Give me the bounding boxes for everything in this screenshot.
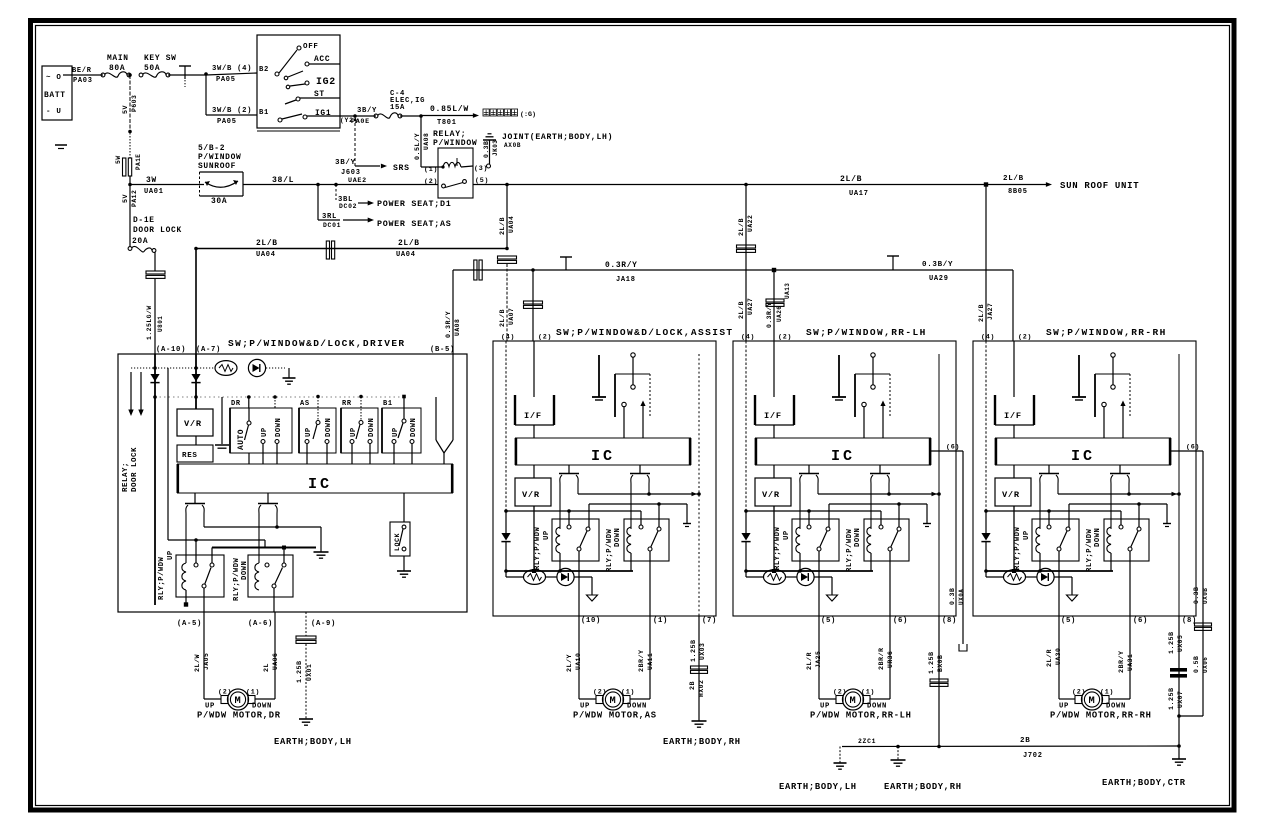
node: junction feeding B1 <box>204 72 208 76</box>
interface I/F box SW;P/WINDOW,RR-RH <box>995 395 1034 438</box>
ground mid SW;P/WINDOW,RR-RH <box>1072 355 1086 400</box>
svg-text:(2): (2) <box>833 689 847 697</box>
svg-text:1.25LG/W: 1.25LG/W <box>146 305 153 340</box>
wire emitters to ground driver <box>204 525 329 558</box>
transistor Q1 SW;P/WINDOW&D/LOCK,ASSIST <box>559 465 579 529</box>
svg-text:0.3R/Y: 0.3R/Y <box>605 261 638 270</box>
svg-text:JA05: JA05 <box>203 653 210 670</box>
wire relay feed y163 SW;P/WINDOW,RR-RH <box>1069 502 1171 527</box>
svg-text:J603: J603 <box>341 169 361 177</box>
svg-text:0.85L/W: 0.85L/W <box>430 105 469 114</box>
svg-text:(1): (1) <box>424 166 438 174</box>
svg-text:RLY;P/WDW: RLY;P/WDW <box>534 526 542 570</box>
svg-text:B2: B2 <box>259 66 269 74</box>
wire 2L/B UA04 horizontal <box>196 239 507 259</box>
switch unit SW;P/WINDOW&D/LOCK,DRIVER box <box>118 354 467 612</box>
relay RLY;P/WDW DOWN SW;P/WINDOW,RR-RH <box>1086 519 1149 616</box>
label SW;P/WINDOW&D/LOCK,ASSIST title <box>501 327 734 342</box>
ground small on 2B bus <box>834 747 847 770</box>
ground mid SW;P/WINDOW&D/LOCK,ASSIST <box>592 355 606 400</box>
svg-text:KEY SW: KEY SW <box>144 54 177 63</box>
svg-text:UA26: UA26 <box>776 306 783 322</box>
svg-text:RLY;P/WDW: RLY;P/WDW <box>846 528 854 572</box>
svg-text:(2): (2) <box>1072 689 1086 697</box>
wire assist (7) earth chain 1.25B UX03 <box>689 616 708 721</box>
ignition terminal B1 and arm to IG1 <box>259 109 331 122</box>
svg-text:UA07: UA07 <box>508 308 515 325</box>
wire 0.3B JK03 to joint earth <box>483 140 499 164</box>
wire from rail down left inner <box>167 368 169 540</box>
relay RLY;P/WDW UP driver <box>158 550 224 612</box>
svg-text:5W: 5W <box>115 155 122 164</box>
svg-text:MAIN: MAIN <box>107 54 129 63</box>
svg-text:UA30: UA30 <box>1055 648 1062 665</box>
svg-text:RLY;P/WDW: RLY;P/WDW <box>606 528 614 572</box>
fuse D-1E 20A <box>128 247 132 251</box>
svg-text:(1): (1) <box>1100 689 1114 697</box>
svg-text:UA04: UA04 <box>256 251 276 259</box>
wire supply 1 into driver box (1.25LG/W) <box>154 354 156 605</box>
svg-text:UP: UP <box>167 550 175 560</box>
svg-text:2L/B: 2L/B <box>499 309 507 327</box>
relay RLY;P/WDW UP SW;P/WINDOW,RR-LH <box>774 519 839 616</box>
svg-text:UX03: UX03 <box>699 643 706 660</box>
svg-text:0.3R/Y: 0.3R/Y <box>445 311 453 338</box>
svg-text:EARTH;BODY,LH: EARTH;BODY,LH <box>779 782 857 792</box>
wire driver (A-5) to motor 2L/W JA05 <box>194 612 221 699</box>
svg-text:3B/Y: 3B/Y <box>357 107 377 115</box>
svg-text:DOWN: DOWN <box>325 418 333 437</box>
svg-text:UA08: UA08 <box>454 319 461 336</box>
svg-text:(5): (5) <box>1061 617 1076 625</box>
wire 0.3R/Y drop into driver box <box>445 270 461 354</box>
wire RR-LH (5) to motor <box>806 616 836 699</box>
svg-text:SUNROOF: SUNROOF <box>198 162 236 171</box>
wire internal right vertical SW;P/WINDOW,RR-RH <box>1178 354 1180 616</box>
wire RR-LH (6) to motor <box>870 616 894 699</box>
ground lamp SW;P/WINDOW&D/LOCK,ASSIST <box>587 595 598 601</box>
svg-text:UA29: UA29 <box>929 275 949 283</box>
svg-text:JOINT(EARTH;BODY,LH): JOINT(EARTH;BODY,LH) <box>502 133 613 142</box>
svg-text:J702: J702 <box>1023 752 1043 760</box>
label RELAY;DOOR LOCK (rotated) <box>122 447 139 492</box>
wire RR-LH (8) earth chain 1.25B <box>928 616 948 747</box>
svg-text:(A-7): (A-7) <box>196 346 221 354</box>
svg-text:(4): (4) <box>741 334 755 342</box>
svg-text:UP: UP <box>783 530 791 540</box>
wire emitter line SW;P/WINDOW,RR-RH <box>1058 492 1181 496</box>
transistor Q2 SW;P/WINDOW,RR-LH <box>870 465 890 529</box>
label 2L/B UA17 on bus <box>840 175 869 198</box>
wire relay feed y163 SW;P/WINDOW&D/LOCK,ASSIST <box>589 502 691 527</box>
ground in driver box top <box>283 368 296 384</box>
svg-text:RR: RR <box>342 400 352 408</box>
wire bus bottom SW;P/WINDOW&D/LOCK,ASSIST <box>504 569 633 573</box>
wire 2L/B JA27 RR-RH feed <box>978 185 994 342</box>
diode on supply SW;P/WINDOW,RR-RH <box>981 511 990 571</box>
svg-text:PA05: PA05 <box>216 76 236 84</box>
svg-text:JK03: JK03 <box>492 140 499 156</box>
wire relay feed y170 SW;P/WINDOW,RR-RH <box>984 509 1121 525</box>
svg-text:P/WINDOW: P/WINDOW <box>433 139 477 148</box>
svg-text:P/WDW MOTOR,AS: P/WDW MOTOR,AS <box>573 711 657 721</box>
svg-text:I/F: I/F <box>524 411 542 421</box>
svg-text:50A: 50A <box>144 64 160 73</box>
fuse KEY SW 50A <box>139 54 177 77</box>
wire BE/R PA03 battery to MAIN fuse <box>63 67 103 85</box>
wire 1.25LG/W U801 into driver box <box>146 252 165 354</box>
ignition contact ST <box>285 90 340 104</box>
fuse MAIN 80A <box>101 54 131 77</box>
svg-text:UA11: UA11 <box>647 653 654 670</box>
label 2L/B UA27 RR-LH feed lower <box>738 298 754 319</box>
svg-text:SW;P/WINDOW&D/LOCK,DRIVER: SW;P/WINDOW&D/LOCK,DRIVER <box>228 338 406 349</box>
svg-text:DOWN: DOWN <box>1106 703 1126 711</box>
svg-text:(A-5): (A-5) <box>177 620 202 628</box>
svg-text:UA22: UA22 <box>747 215 754 232</box>
wire 0.85L/W T801 with arrow to fuel unit (jp) <box>421 105 479 127</box>
motor P/WDW MOTOR,DR <box>205 689 272 711</box>
svg-text:RLY;P/WDW: RLY;P/WDW <box>1086 528 1094 572</box>
relay RLY;P/WDW UP SW;P/WINDOW&D/LOCK,ASSIST <box>534 519 599 616</box>
node: rail dots y=397 <box>153 395 404 399</box>
svg-text:(A-6): (A-6) <box>248 620 273 628</box>
connector tick on 3W/B wire <box>179 66 191 87</box>
svg-text:SW;P/WINDOW,RR-RH: SW;P/WINDOW,RR-RH <box>1046 327 1167 338</box>
svg-text:(1): (1) <box>653 617 668 625</box>
switch cluster SW;P/WINDOW&D/LOCK,ASSIST <box>615 353 650 438</box>
lamp L1 in driver box <box>215 361 237 376</box>
svg-text:RELAY;: RELAY; <box>433 130 466 139</box>
svg-text:2L/B: 2L/B <box>499 217 507 235</box>
svg-text:RLY;P/WDW: RLY;P/WDW <box>1014 526 1022 570</box>
IC box SW;P/WINDOW,RR-RH <box>995 438 1171 465</box>
regulator V/R box SW;P/WINDOW&D/LOCK,ASSIST <box>515 465 551 571</box>
svg-text:RLY;P/WDW: RLY;P/WDW <box>158 556 166 600</box>
label SW;P/WINDOW,RR-LH title <box>741 327 927 342</box>
dotted rail across driver box top <box>131 366 285 370</box>
svg-text:3W: 3W <box>146 176 157 185</box>
fuse box 5/B-2 P/WINDOW SUNROOF 30A <box>198 144 243 206</box>
ignition terminal B2 <box>259 66 279 76</box>
transistor Q1 SW;P/WINDOW,RR-RH <box>1039 465 1059 529</box>
svg-text:SW;P/WINDOW&D/LOCK,ASSIST: SW;P/WINDOW&D/LOCK,ASSIST <box>556 327 734 338</box>
svg-text:(A-9): (A-9) <box>311 620 336 628</box>
svg-text:UP: UP <box>543 530 551 540</box>
wire SRS branch 3B/Y J603 <box>335 118 410 185</box>
svg-text:(8): (8) <box>942 617 957 625</box>
node: junction bus/RR-LH feed <box>744 183 748 187</box>
svg-text:P/WINDOW: P/WINDOW <box>198 153 241 162</box>
svg-text:UAE2: UAE2 <box>348 177 367 185</box>
motor P/WDW MOTOR,AS <box>580 689 647 711</box>
wire assist (1) to motor <box>630 616 654 699</box>
wire 3W UA01 start of main bus <box>128 176 204 196</box>
svg-text:V/R: V/R <box>184 419 202 429</box>
svg-text:1.25B: 1.25B <box>690 639 698 662</box>
svg-text:UA06: UA06 <box>272 653 279 670</box>
wire relay feed y170 SW;P/WINDOW&D/LOCK,ASSIST <box>504 509 641 525</box>
svg-text:~ O: ~ O <box>46 74 62 82</box>
svg-text:M: M <box>850 695 857 707</box>
joint tick on 0.3R/Y line <box>560 257 572 270</box>
stub 3RL DC01 to POWER SEAT;AS <box>318 185 451 230</box>
resistor RES box driver <box>177 436 213 462</box>
svg-text:IC: IC <box>1071 447 1095 465</box>
wire fuse to ignition switch, label 3W/B (4) PA05 <box>168 65 257 84</box>
svg-text:UP: UP <box>261 427 269 437</box>
svg-text:- U: - U <box>46 108 62 116</box>
ignition inner arms <box>284 71 305 89</box>
svg-text:(2): (2) <box>218 689 232 697</box>
wire IG1 output <box>307 115 376 117</box>
svg-text:M: M <box>235 695 242 707</box>
svg-text:2L/B: 2L/B <box>256 239 278 248</box>
wire supply 2 into driver box (2L/B) <box>195 354 197 409</box>
svg-text:DC02: DC02 <box>339 203 357 210</box>
regulator V/R box SW;P/WINDOW,RR-LH <box>755 465 791 571</box>
wire driver (A-9) earth chain 1.25B UX01 <box>296 612 316 719</box>
svg-text:2L/B: 2L/B <box>398 239 420 248</box>
switch unit SW;P/WINDOW,RR-LH box <box>733 341 956 616</box>
svg-text:PA12: PA12 <box>131 190 138 207</box>
svg-text:UA01: UA01 <box>144 188 164 196</box>
wire (4) supply dashed inside SW;P/WINDOW&D/LOCK,ASSIST <box>505 341 507 511</box>
ground lamp SW;P/WINDOW,RR-LH <box>827 595 838 601</box>
battery BATT <box>42 66 72 120</box>
svg-text:0.3R/Y: 0.3R/Y <box>766 302 773 328</box>
svg-text:PA0E: PA0E <box>351 118 370 126</box>
svg-text:UA17: UA17 <box>849 190 869 198</box>
wire 5V P603 below MAIN junction <box>122 75 138 131</box>
svg-text:SUN ROOF UNIT: SUN ROOF UNIT <box>1060 181 1139 191</box>
LED D3 in driver box <box>248 359 265 376</box>
svg-text:(4): (4) <box>981 334 995 342</box>
node: junction (Y2) PA0E <box>340 107 377 126</box>
LED D2 SW;P/WINDOW,RR-RH <box>1026 568 1073 595</box>
svg-text:3RL: 3RL <box>322 213 337 221</box>
wire 0.5L/Y UA08 into relay coil <box>414 116 430 167</box>
svg-text:PA03: PA03 <box>73 77 93 85</box>
transistor Q2 SW;P/WINDOW,RR-RH <box>1110 465 1130 529</box>
node: dot on 5V wire <box>128 130 132 134</box>
switch unit SW;P/WINDOW&D/LOCK,ASSIST box <box>493 341 716 616</box>
svg-text:0.5L/Y: 0.5L/Y <box>414 133 422 160</box>
svg-text:2L/B: 2L/B <box>1003 175 1024 183</box>
LED D2 SW;P/WINDOW,RR-LH <box>786 568 833 595</box>
relay RLY;P/WDW DOWN SW;P/WINDOW,RR-LH <box>846 519 909 616</box>
diode D2 on supply 2 <box>191 374 200 382</box>
fuse C-4 ELEC,IG 15A <box>374 90 425 118</box>
wire internal right vertical SW;P/WINDOW&D/LOCK,ASSIST <box>698 354 700 616</box>
svg-text:EARTH;BODY,RH: EARTH;BODY,RH <box>884 782 962 792</box>
svg-text:UX06: UX06 <box>1202 657 1209 673</box>
switch cluster SW;P/WINDOW,RR-LH <box>855 353 890 438</box>
svg-text:2L: 2L <box>263 663 271 672</box>
svg-text:0.5B: 0.5B <box>1193 656 1200 673</box>
svg-text:2B: 2B <box>689 681 697 690</box>
relay coil, pins (1)(3) <box>421 158 491 174</box>
svg-text:UA04: UA04 <box>396 251 416 259</box>
label bottom terminals SW;P/WINDOW,RR-LH <box>821 617 957 625</box>
svg-text:M: M <box>1089 695 1096 707</box>
svg-text:DOOR LOCK: DOOR LOCK <box>133 226 182 235</box>
lamp L1 SW;P/WINDOW,RR-LH <box>746 570 786 585</box>
svg-text:3W/B (4): 3W/B (4) <box>212 65 252 73</box>
svg-text:BE/R: BE/R <box>72 67 92 75</box>
label 0.3B/Y UA29 <box>922 261 953 283</box>
svg-text:(A-10): (A-10) <box>156 346 186 354</box>
wire bus bottom SW;P/WINDOW,RR-RH <box>984 569 1113 573</box>
wire 38/L segment of main bus <box>243 176 438 185</box>
svg-text:0.3B: 0.3B <box>1193 587 1200 604</box>
wire (2) into I/F SW;P/WINDOW,RR-LH <box>773 341 775 397</box>
svg-text:1.25B: 1.25B <box>296 660 304 683</box>
wire emitter line SW;P/WINDOW&D/LOCK,ASSIST <box>578 492 701 496</box>
svg-text:30A: 30A <box>211 197 227 206</box>
ground under battery <box>55 145 67 149</box>
svg-text:JA18: JA18 <box>616 276 636 284</box>
wire relay feed y163 SW;P/WINDOW,RR-LH <box>829 502 931 527</box>
svg-text:UA13: UA13 <box>784 283 791 299</box>
svg-text:B1: B1 <box>383 400 393 408</box>
svg-text:2L/B: 2L/B <box>840 175 862 184</box>
wire main bus through relay to right <box>473 184 1046 186</box>
svg-text:DOWN: DOWN <box>1094 528 1102 547</box>
svg-text:5/B-2: 5/B-2 <box>198 144 225 153</box>
wire driver (A-6) to motor 2L UA06 <box>255 612 279 699</box>
svg-text:(5): (5) <box>475 177 489 185</box>
node: junction 0.3R/Y to RR-LH (2) <box>772 268 776 272</box>
svg-text:1.25B: 1.25B <box>928 651 936 674</box>
svg-text:DOWN: DOWN <box>241 561 249 580</box>
wire relay feed y170 SW;P/WINDOW,RR-LH <box>744 509 881 525</box>
svg-text:DOWN: DOWN <box>614 528 622 547</box>
wire (2) into I/F SW;P/WINDOW&D/LOCK,ASSIST <box>533 341 535 397</box>
svg-text:UX0A: UX0A <box>958 589 965 605</box>
switch cluster RR (UP/DOWN) <box>341 395 378 464</box>
svg-text:EARTH;BODY,LH: EARTH;BODY,LH <box>274 737 352 747</box>
switch cluster SW;P/WINDOW,RR-RH <box>1095 353 1130 438</box>
wire RR-RH (8) earth chain 1.25B UX05/UX07 <box>1168 616 1187 759</box>
wire 3W/B (2) PA05 to B1 <box>206 74 257 126</box>
arrow to SUN ROOF UNIT with label 2L/B 8B05 <box>1003 175 1139 196</box>
svg-text:PA05: PA05 <box>217 118 237 126</box>
svg-text:UX07: UX07 <box>1177 691 1184 708</box>
motor P/WDW MOTOR,RR-LH <box>820 689 887 711</box>
svg-text:2BR/Y: 2BR/Y <box>638 649 646 672</box>
funnel feed into IC <box>436 354 453 464</box>
node: junction to power seat D1 <box>334 183 338 187</box>
svg-text:1.25B: 1.25B <box>1168 631 1176 654</box>
svg-text:UP: UP <box>1059 703 1069 711</box>
svg-text:(B-5): (B-5) <box>430 346 455 354</box>
svg-text:(1): (1) <box>621 689 635 697</box>
wire bus bottom SW;P/WINDOW,RR-LH <box>744 569 873 573</box>
ignition arm B2-OFF <box>279 43 319 73</box>
svg-text:V/R: V/R <box>762 490 780 500</box>
svg-text:(2): (2) <box>593 689 607 697</box>
svg-text:3W/B (2): 3W/B (2) <box>212 107 252 115</box>
svg-text:15A: 15A <box>390 104 405 112</box>
svg-text:OFF: OFF <box>303 43 319 51</box>
ground mid SW;P/WINDOW,RR-LH <box>832 355 846 400</box>
svg-text:IG2: IG2 <box>316 76 336 87</box>
svg-text:T801: T801 <box>437 119 457 127</box>
svg-text:DOWN: DOWN <box>275 418 283 437</box>
svg-text:UR36: UR36 <box>887 651 894 668</box>
svg-text:U801: U801 <box>157 316 164 332</box>
wire RR-RH (5) to motor <box>1046 616 1075 699</box>
ignition key switch box <box>257 35 340 131</box>
wire emitter line SW;P/WINDOW,RR-LH <box>818 492 941 496</box>
svg-text:2BR/Y: 2BR/Y <box>1118 650 1126 673</box>
relay RLY;P/WDW DOWN driver <box>233 555 293 612</box>
label bottom terminals SW;P/WINDOW&D/LOCK,ASSIST <box>581 617 717 625</box>
ground large on 2B bus <box>891 747 906 767</box>
svg-text:2B: 2B <box>1020 737 1030 745</box>
switch cluster AS (UP/DOWN) <box>299 395 336 464</box>
svg-text:BATT: BATT <box>44 91 66 100</box>
svg-text:DOWN: DOWN <box>867 703 887 711</box>
wire (4) supply dashed inside SW;P/WINDOW,RR-LH <box>745 341 747 511</box>
svg-text:(4): (4) <box>501 334 515 342</box>
transistor Q1 driver <box>185 493 205 563</box>
svg-text:UP: UP <box>1023 530 1031 540</box>
svg-text:IC: IC <box>831 447 855 465</box>
stub 3BL DC02 to POWER SEAT;D1 <box>336 185 451 211</box>
motor P/WDW MOTOR,RR-RH <box>1059 689 1126 711</box>
svg-text:UX05: UX05 <box>1177 635 1184 652</box>
wire assist (10) to motor <box>566 616 596 699</box>
label JOINT(EARTH;BODY,LH) <box>502 133 613 149</box>
svg-text:(10): (10) <box>581 617 601 625</box>
svg-text:(:G): (:G) <box>520 111 536 119</box>
svg-text:(6): (6) <box>946 444 960 452</box>
svg-text:(7): (7) <box>702 617 717 625</box>
svg-text:V/R: V/R <box>1002 490 1020 500</box>
svg-text:(6): (6) <box>1133 617 1148 625</box>
transistor Q2 driver <box>258 493 278 563</box>
wire internal right vertical SW;P/WINDOW,RR-LH <box>938 354 940 616</box>
label: japanese fuel unit (:G) <box>483 109 536 119</box>
relay RLY;P/WDW DOWN SW;P/WINDOW&D/LOCK,ASSIST <box>606 519 669 616</box>
svg-text:P603: P603 <box>131 95 138 112</box>
interface I/F box SW;P/WINDOW&D/LOCK,ASSIST <box>515 395 554 438</box>
diode D1 on supply 1 <box>150 374 159 382</box>
regulator V/R box driver <box>177 409 213 436</box>
svg-text:38/L: 38/L <box>272 176 294 185</box>
svg-text:3B/Y: 3B/Y <box>335 159 356 167</box>
node: junction to power seat AS <box>316 183 320 187</box>
svg-text:LOCK: LOCK <box>394 532 402 551</box>
svg-text:RLY;P/WDW: RLY;P/WDW <box>233 557 241 601</box>
svg-text:DR: DR <box>231 400 241 408</box>
relay RELAY;P/WINDOW box <box>433 130 477 198</box>
svg-text:DOWN: DOWN <box>252 703 272 711</box>
ignition contact IG2 <box>305 76 336 87</box>
wire (2) into I/F SW;P/WINDOW,RR-RH <box>1013 341 1015 397</box>
svg-text:M: M <box>610 695 617 707</box>
ground assist earth <box>692 720 707 722</box>
IC box driver <box>177 464 453 493</box>
svg-text:UP: UP <box>820 703 830 711</box>
svg-text:UX01: UX01 <box>306 664 313 681</box>
svg-text:0.3B: 0.3B <box>483 141 490 158</box>
svg-text:2L/W: 2L/W <box>194 653 202 672</box>
svg-text:IC: IC <box>308 475 332 493</box>
svg-text:DOWN: DOWN <box>368 418 376 437</box>
